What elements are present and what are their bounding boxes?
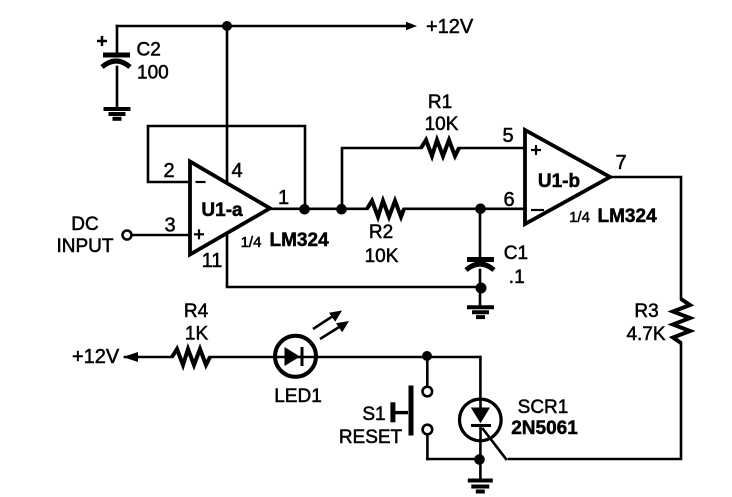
- svg-text:SCR1: SCR1: [518, 397, 569, 418]
- svg-text:4.7K: 4.7K: [626, 324, 665, 345]
- svg-text:R3: R3: [634, 301, 658, 322]
- svg-text:1/4: 1/4: [569, 209, 590, 226]
- svg-text:1/4: 1/4: [241, 234, 262, 251]
- svg-text:2N5061: 2N5061: [511, 418, 578, 439]
- svg-text:C1: C1: [504, 243, 528, 264]
- svg-text:R4: R4: [184, 301, 209, 322]
- svg-text:.1: .1: [509, 267, 525, 288]
- svg-text:U1-b: U1-b: [538, 171, 580, 192]
- svg-text:100: 100: [137, 63, 169, 84]
- svg-text:10K: 10K: [365, 246, 399, 267]
- svg-text:5: 5: [502, 125, 513, 147]
- svg-text:R2: R2: [369, 222, 393, 243]
- svg-text:6: 6: [503, 189, 514, 211]
- svg-text:R1: R1: [428, 92, 452, 113]
- svg-text:+12V: +12V: [426, 16, 474, 38]
- svg-text:2: 2: [163, 160, 174, 182]
- svg-text:DC: DC: [71, 214, 98, 235]
- svg-text:11: 11: [202, 250, 223, 272]
- svg-text:LM324: LM324: [598, 206, 658, 227]
- svg-text:4: 4: [231, 160, 242, 182]
- svg-text:+12V: +12V: [72, 346, 120, 368]
- svg-text:1: 1: [278, 187, 289, 209]
- svg-text:S1: S1: [362, 404, 385, 425]
- svg-text:RESET: RESET: [339, 427, 403, 448]
- svg-text:U1-a: U1-a: [201, 200, 243, 221]
- svg-text:1K: 1K: [185, 324, 209, 345]
- svg-text:C2: C2: [137, 40, 161, 61]
- svg-text:3: 3: [164, 215, 175, 237]
- svg-text:LED1: LED1: [274, 386, 322, 407]
- svg-text:INPUT: INPUT: [57, 236, 114, 257]
- svg-text:7: 7: [615, 152, 626, 174]
- svg-text:LM324: LM324: [270, 230, 330, 251]
- svg-text:10K: 10K: [425, 114, 459, 135]
